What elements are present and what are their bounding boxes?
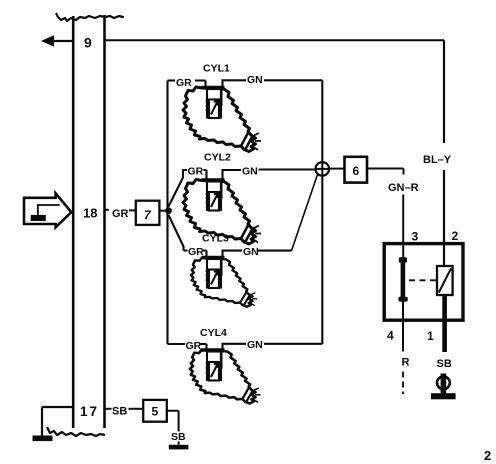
- connector box 6: [345, 157, 368, 183]
- svg-text:CYL4: CYL4: [200, 327, 227, 339]
- injector CYL4 (slightly smaller): [190, 350, 261, 404]
- component arrow symbol at terminal 18: [24, 193, 71, 227]
- wire box 6 to GN-R: [367, 169, 404, 175]
- GN collector bus: [321, 80, 323, 162]
- diagonal: node to CYL2 GR: [169, 170, 188, 207]
- svg-text:5: 5: [152, 405, 159, 419]
- wire BL-Y vertical upper segment: [443, 40, 445, 143]
- wire GN row CYL4 to bus: [264, 343, 322, 345]
- wire: SB label to box 5: [129, 408, 144, 410]
- relay winding element (left): [399, 257, 408, 301]
- svg-text:GN: GN: [242, 166, 258, 178]
- junction node (solder point): [165, 207, 172, 214]
- wire BL-Y vertical lower segment to relay pin 2: [443, 170, 445, 266]
- wire injector GN pin CYL4: [223, 344, 247, 350]
- svg-text:CYL3: CYL3: [202, 233, 229, 245]
- wire GR to injector pin CYL2: [204, 170, 207, 180]
- wiring harness bus (vertical band): [47, 13, 123, 436]
- wire node to box 6: [329, 168, 344, 170]
- wire GN row CYL3: [258, 250, 292, 252]
- svg-text:2: 2: [452, 229, 459, 243]
- wire GR to injector pin CYL4: [201, 344, 207, 350]
- wire GR row CYL4: [168, 343, 186, 345]
- wire injector GN pin CYL2: [223, 170, 242, 180]
- svg-text:CYL2: CYL2: [204, 152, 231, 164]
- connector box 5: [143, 400, 167, 422]
- svg-text:4: 4: [387, 329, 394, 343]
- svg-text:R: R: [402, 357, 410, 369]
- thick wire relay pin 1: [442, 295, 447, 352]
- svg-text:GN: GN: [247, 339, 263, 351]
- svg-text:17: 17: [80, 404, 99, 419]
- ground bar (box 5): [169, 445, 189, 450]
- wire terminal 17 to left ground: [42, 407, 73, 436]
- wire injector GN pin CYL3: [223, 251, 243, 257]
- svg-text:CYL1: CYL1: [203, 63, 230, 75]
- svg-text:GR: GR: [176, 77, 192, 89]
- svg-text:GN: GN: [243, 246, 259, 258]
- svg-text:BL–Y: BL–Y: [423, 154, 452, 166]
- connector box 7: [136, 201, 160, 225]
- wire: terminal 9 to right (top feed line): [105, 39, 445, 41]
- dashed mechanical link: [409, 279, 437, 281]
- svg-text:GR: GR: [112, 208, 129, 220]
- wire GR to injector pin CYL1: [195, 81, 206, 88]
- wire: GR label to connector 7: [129, 209, 136, 211]
- wire relay pin 4 (inside + below box): [402, 301, 404, 352]
- wire box 5 to ground: [167, 411, 179, 445]
- svg-text:9: 9: [84, 35, 92, 51]
- svg-text:18: 18: [83, 206, 97, 221]
- svg-text:GR: GR: [188, 166, 204, 178]
- svg-text:2: 2: [484, 448, 491, 463]
- svg-text:3: 3: [412, 230, 419, 244]
- injector CYL1: [183, 87, 261, 152]
- relay contact element (right, rect with diagonal): [437, 266, 453, 295]
- dashed continuation wire below R: [402, 372, 404, 395]
- wire: box 7 to junction node: [160, 210, 167, 212]
- svg-text:GN–R: GN–R: [388, 182, 419, 194]
- wire GN-R to relay pin 3: [402, 195, 404, 259]
- wire GN row CYL2 to node circle: [259, 168, 316, 170]
- wire GR to injector pin CYL3: [184, 251, 207, 258]
- svg-text:SB: SB: [171, 431, 186, 443]
- wire injector GN pin CYL1: [223, 80, 247, 87]
- injector CYL2: [183, 180, 261, 245]
- svg-text:1: 1: [427, 329, 434, 343]
- svg-text:GR: GR: [186, 340, 202, 352]
- wire stub: band to GR label (terminal 18): [105, 209, 109, 211]
- wire GN row CYL1 to bus: [264, 79, 322, 81]
- bolt ground symbol: [431, 374, 456, 400]
- svg-text:GN: GN: [247, 74, 263, 86]
- diagonal: node to CYL3 GR: [169, 215, 184, 251]
- svg-text:6: 6: [353, 164, 360, 178]
- wire: terminal 9 to left arrow: [53, 40, 73, 42]
- wire GR row CYL1: [168, 79, 176, 81]
- svg-text:SB: SB: [112, 406, 127, 418]
- wire stub: band to SB label (terminal 17): [105, 408, 112, 410]
- GR distribution bus: [166, 81, 168, 345]
- node circle (GN junction): [316, 162, 330, 176]
- arrowhead (pointing left): [41, 35, 54, 46]
- injector CYL3 (smaller): [191, 258, 257, 307]
- ground bar (left): [33, 436, 53, 442]
- relay box: [384, 244, 463, 321]
- svg-text:SB: SB: [437, 358, 452, 370]
- diagonal wire CYL3 GN to node circle: [292, 175, 318, 251]
